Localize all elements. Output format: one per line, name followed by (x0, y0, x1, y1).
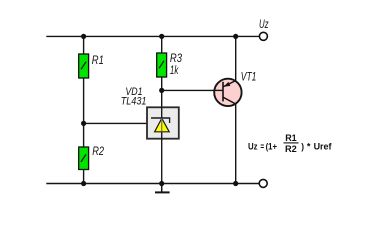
svg-text:VT1: VT1 (241, 72, 257, 84)
wire VT1 bottom lead to bottom rail (235, 104, 237, 184)
svg-text:Uz: Uz (259, 17, 269, 31)
VD1 cathode lead (161, 107, 163, 119)
node Uz output terminal (259, 17, 269, 41)
svg-text:R3: R3 (170, 53, 183, 65)
VD1 cathode zener tick (169, 118, 171, 123)
ground (155, 184, 170, 193)
svg-text:R2: R2 (285, 144, 297, 154)
junction divider tap R1/R2 (81, 121, 86, 126)
R3 body (157, 53, 167, 77)
junction R3/VD1 cathode/base node (159, 88, 164, 93)
junction R3 top rail (159, 34, 164, 39)
junction R1 top rail (81, 34, 86, 39)
svg-text:*: * (307, 142, 311, 153)
formula Uz = (1 + R1/R2) * Uref (248, 133, 332, 154)
R2 slash mark (81, 154, 86, 162)
svg-text:R2: R2 (92, 146, 104, 158)
svg-text:1k: 1k (170, 65, 179, 77)
wire top rail (input to Uz output) (46, 35, 259, 37)
VT1 circle body (214, 79, 241, 106)
wire R3 branch (top rail to VD1 cathode) (161, 36, 163, 107)
VD1 cathode bar (151, 117, 170, 119)
VT1 emitter arrow (224, 82, 231, 87)
R1 slash mark (81, 62, 86, 70)
svg-text:Uref: Uref (314, 142, 333, 153)
IC VD1 TL431 shunt regulator (121, 86, 179, 184)
VD1 anode triangle (155, 118, 170, 132)
junction R2 bottom rail (81, 181, 86, 186)
wire base (R3/VD1 node to VT1 base) (162, 89, 223, 91)
VT1 base bar (222, 82, 224, 102)
R2 body (79, 147, 89, 170)
R1 body (79, 54, 89, 78)
VD1 internal line through triangle (161, 119, 163, 132)
VT1 base lead inside circle (214, 89, 223, 91)
junction VT1 bottom lead on bottom rail (233, 181, 238, 186)
R3 slash mark (159, 61, 164, 69)
resistor R2 (79, 146, 105, 169)
svg-text:=: = (260, 142, 264, 153)
resistor R1 (79, 54, 104, 78)
wire ref (divider tap to VD1 reference pin) (84, 122, 147, 124)
resistor R3 (157, 53, 183, 77)
wire bottom rail (common) (46, 183, 259, 185)
svg-text:TL431: TL431 (121, 95, 147, 107)
junction VD1 anode bottom rail (159, 181, 164, 186)
svg-text:R1: R1 (92, 55, 104, 67)
svg-text:(1+: (1+ (266, 142, 278, 153)
svg-text:Uz: Uz (248, 142, 258, 153)
wire R1-R2 divider branch (83, 36, 85, 184)
node common terminal (bottom right) (259, 179, 267, 187)
VT1 emitter diagonal (top) (223, 81, 236, 87)
transistor Q1 VT1 (214, 72, 257, 107)
svg-text:R1: R1 (285, 133, 297, 143)
VD1 anode lead to bottom rail (161, 132, 163, 184)
VT1 collector diagonal (bottom) (223, 97, 236, 104)
VD1 package box (147, 107, 179, 138)
svg-text:): ) (301, 142, 304, 153)
junction VT1 top lead on top rail (233, 34, 238, 39)
wire VT1 top lead to top rail (235, 36, 237, 81)
